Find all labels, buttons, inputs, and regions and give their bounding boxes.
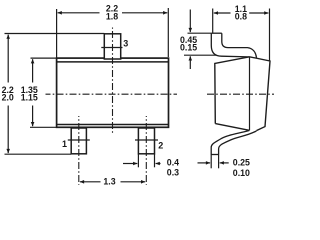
body outline — [57, 58, 169, 127]
dim 0.45/0.15: bottom extension line — [184, 54, 216, 56]
dim 2.2/2.0 dimension line lower segment with arrow — [7, 106, 9, 154]
pin 3 cross bar — [101, 47, 122, 49]
dim 0.25/0.10: right arrow — [220, 162, 229, 164]
dim 1.1/0.8 dimension line left segment with arrow — [214, 12, 231, 14]
side horizontal centerline — [207, 93, 274, 95]
leads 1/2 inner contour — [219, 131, 257, 155]
pin 2 cross bar — [135, 139, 158, 141]
dim 2.2/1.8 top: left extension line — [56, 9, 58, 58]
svg-text:0.25: 0.25 — [233, 158, 250, 168]
dim 2.2/1.8 top: right extension line — [167, 8, 169, 57]
dim 2.2/2.0 dimension line upper segment with arrow — [7, 35, 9, 83]
dim 2.2/2.0 left: top extension line — [5, 33, 105, 35]
dim 0.4/0.3: right arrow — [156, 163, 161, 165]
pin 1 centerline — [78, 116, 80, 185]
side body outline — [215, 57, 270, 131]
dim 0.45/0.15: top extension line — [188, 32, 212, 34]
dim 1.35/1.15: bottom extension line — [30, 126, 57, 128]
svg-text:3: 3 — [123, 39, 128, 49]
pin 1 cross bar — [68, 139, 90, 141]
leads 1/2 outer contour — [211, 131, 249, 155]
svg-text:0.15: 0.15 — [180, 43, 197, 53]
body internal mold line top — [57, 61, 169, 63]
svg-text:0.4: 0.4 — [167, 157, 179, 167]
svg-text:2: 2 — [158, 141, 163, 151]
leads 1/2 tip — [211, 154, 218, 156]
body horizontal centerline — [46, 93, 178, 95]
dim 0.4/0.3: left extension line below pin 2 — [137, 154, 139, 168]
dim 1.35/1.15 dimension line upper segment with arrow — [32, 59, 34, 82]
svg-text:1: 1 — [62, 139, 67, 149]
pin 2 centerline — [145, 116, 147, 185]
dim 0.4/0.3: right extension line below pin 2 — [154, 154, 156, 168]
dim 1.35/1.15: top extension line — [31, 57, 57, 59]
svg-text:1.8: 1.8 — [106, 12, 118, 22]
dim 0.25/0.10: right extension line — [218, 155, 220, 169]
dim 2.2/2.0 left: bottom extension line — [5, 153, 72, 155]
svg-text:0.8: 0.8 — [235, 12, 247, 22]
dim 1.35/1.15 dimension line lower segment with arrow — [32, 106, 34, 127]
dim 2.2/1.8 dimension line right segment with arrow — [122, 12, 167, 14]
dim 0.25/0.10: left arrow — [198, 162, 211, 164]
svg-text:1.3: 1.3 — [103, 177, 115, 187]
dim 1.1/0.8: left extension line — [212, 9, 214, 33]
dim 1.3 bottom: dimension line left segment with arrow — [80, 181, 101, 183]
lead 3 top edge — [211, 32, 222, 34]
svg-text:2.0: 2.0 — [2, 93, 14, 103]
dim 0.45/0.15: top arrow — [189, 10, 191, 33]
pin 1 — [71, 128, 86, 154]
dim 1.3 bottom: dimension line right segment with arrow — [121, 181, 146, 183]
dim 1.1/0.8 dimension line right segment with arrow — [249, 12, 268, 14]
dim 0.25/0.10: left extension line — [210, 155, 212, 169]
body internal mold line bottom — [57, 124, 169, 126]
pin 3 centerline — [112, 28, 114, 134]
svg-text:0.3: 0.3 — [167, 167, 179, 177]
dim 0.45/0.15: bottom arrow — [189, 56, 191, 69]
dim 2.2/1.8 dimension line left segment with arrow — [58, 12, 100, 14]
dim 0.4/0.3: left arrow — [123, 163, 137, 165]
svg-text:1.15: 1.15 — [21, 93, 38, 103]
side body internal vertical line — [249, 57, 251, 131]
lead 3 outer contour — [211, 33, 249, 57]
pin 3 tab — [104, 34, 120, 59]
pin 2 — [138, 128, 154, 154]
svg-text:0.10: 0.10 — [233, 168, 250, 178]
dim 1.1/0.8: right extension line — [269, 9, 271, 61]
lead 3 inner contour — [222, 33, 257, 58]
